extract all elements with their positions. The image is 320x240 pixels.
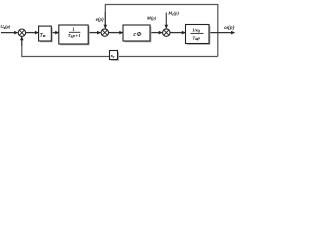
svg-text:сФ: сФ: [133, 32, 142, 38]
svg-text:Tп: Tп: [40, 32, 46, 38]
svg-text:Uя(p): Uя(p): [0, 24, 10, 30]
svg-text:1/кд: 1/кд: [192, 28, 200, 34]
svg-text:Мс(p): Мс(p): [167, 11, 179, 17]
svg-text:Tмp: Tмp: [193, 35, 201, 41]
svg-text:е(р): е(р): [96, 18, 104, 23]
svg-text:кс: кс: [111, 53, 115, 59]
svg-text:М(p): М(p): [146, 15, 157, 20]
svg-text:ω(p): ω(p): [224, 24, 234, 31]
svg-text:Tяp+1: Tяp+1: [68, 33, 81, 39]
